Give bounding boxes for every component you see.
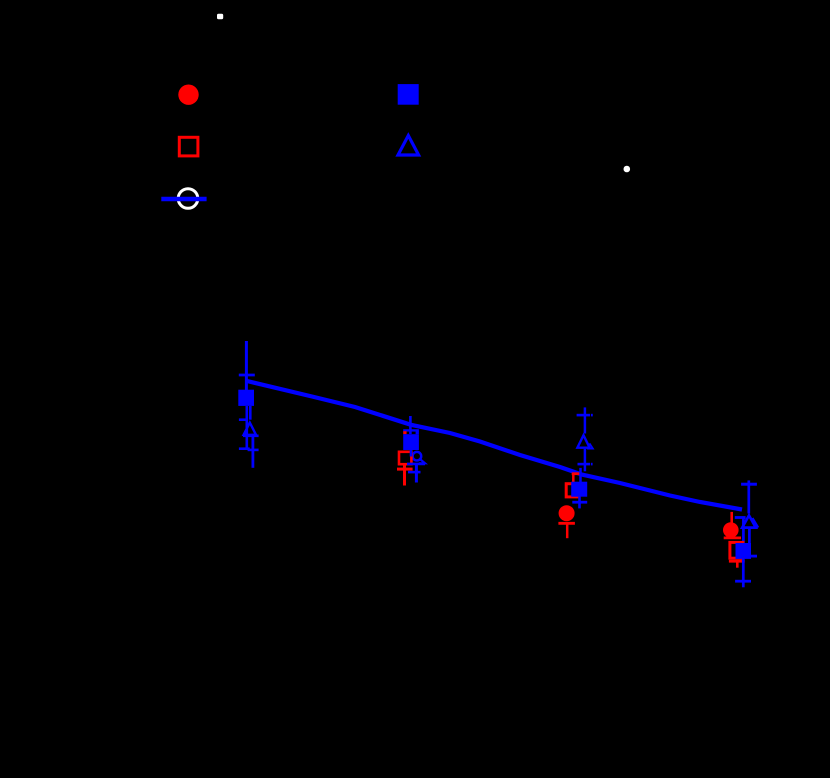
cluster2 small triangle corner <box>419 460 425 464</box>
cluster4 blue cap right <box>741 555 757 558</box>
cluster2 red bar <box>403 466 406 486</box>
cluster2 bar top <box>409 416 412 434</box>
cluster2 blue open circle <box>413 452 422 461</box>
cluster3 blue bar upper <box>579 468 582 483</box>
cluster1 cap upper <box>239 374 255 377</box>
cluster1 lower bars <box>251 436 254 468</box>
legend blue open triangle <box>398 136 419 156</box>
cluster3 blue bar lower <box>578 497 581 509</box>
cluster1 blue filled square <box>238 390 254 406</box>
cluster3 cap top <box>577 414 591 417</box>
cluster3 bar below triangle <box>584 449 587 472</box>
blue trend line <box>247 381 742 510</box>
cluster3 red cap upper <box>572 472 580 475</box>
cluster2 blue filled square <box>403 434 419 450</box>
cluster3 red bar upper <box>572 474 575 482</box>
cluster4 red cap lower <box>729 560 745 563</box>
cluster2 red open square <box>399 452 411 464</box>
cluster1 caps bottom <box>239 447 250 450</box>
cluster3 red open square <box>566 484 579 497</box>
cluster4 triangle extra edge <box>753 518 759 528</box>
white dot middle-right <box>624 166 631 173</box>
cluster3 second triangle corner <box>587 443 593 448</box>
cluster3 red cap lower <box>558 522 575 525</box>
cluster4 red filled circle <box>723 522 739 538</box>
cluster1 cap below triangle <box>243 434 259 437</box>
cluster2 cap <box>403 429 419 431</box>
cluster1 bars below square <box>246 406 249 449</box>
cluster4 blue bar mid <box>742 518 745 546</box>
legend blue filled square <box>398 84 419 105</box>
legend blue line through circle <box>161 197 206 202</box>
cluster2 blue cap2 <box>408 471 421 474</box>
cluster4 red bar upper <box>730 512 733 523</box>
cluster4 blue cap lower <box>735 580 751 583</box>
cluster3 red filled circle <box>559 505 575 521</box>
cluster1 open triangle <box>244 423 256 435</box>
legend white open circle <box>178 189 198 209</box>
cluster3 cap mid <box>578 463 591 466</box>
cluster3 red bar lower <box>566 523 569 538</box>
cluster4 cap top <box>741 483 757 486</box>
cluster4 red cap circle <box>724 537 741 540</box>
cluster4 red open square <box>730 542 743 558</box>
cluster2 bar below square <box>410 446 413 457</box>
cluster3 open triangle <box>577 435 589 448</box>
white dot top <box>217 14 223 20</box>
cluster2 blue bar <box>415 464 418 483</box>
cluster4 bar below triangle <box>748 529 751 545</box>
cluster3 bar top <box>584 407 587 433</box>
cluster4 blue bar lower <box>742 559 745 587</box>
legend red filled circle <box>178 85 198 105</box>
legend red open square <box>179 137 198 156</box>
cluster4 cap mid <box>735 516 746 519</box>
cluster1 cap mid <box>239 418 248 421</box>
cluster3 blue cap lower <box>572 501 587 504</box>
cluster4 blue filled square <box>736 543 752 559</box>
cluster1 error bar upper <box>245 341 248 392</box>
cluster4 red bar lower <box>736 561 739 568</box>
cluster4 bar top <box>747 480 750 513</box>
cluster2 red cap <box>397 468 413 471</box>
cluster4 open triangle <box>742 515 756 527</box>
cluster2 blue cap1 <box>407 463 425 466</box>
cluster2 red cap fragment <box>403 431 406 434</box>
cluster3 blue filled square <box>571 482 587 497</box>
